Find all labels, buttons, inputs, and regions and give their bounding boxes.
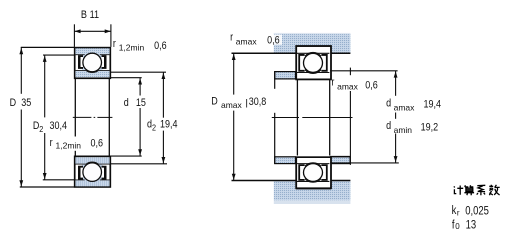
svg-text:r: r: [50, 137, 54, 149]
svg-text:30,4: 30,4: [50, 120, 68, 132]
halo for top 0,6 label: [266, 35, 282, 45]
svg-text:amax: amax: [337, 81, 359, 91]
d2 dimension line: [162, 72, 164, 118]
svg-text:19,4: 19,4: [424, 99, 442, 111]
char ji 计: [454, 186, 457, 193]
svg-text:r: r: [230, 32, 234, 44]
bore line left (right figure): [296, 80, 298, 156]
Damax dimension line: [233, 53, 235, 94]
svg-text:B: B: [81, 9, 87, 21]
svg-text:amax: amax: [236, 37, 258, 47]
bearing upper half section: [75, 48, 111, 79]
svg-text:0,6: 0,6: [365, 79, 378, 91]
chinese title 计算系数 drawn as paths: [454, 185, 500, 195]
bearing lower half section right (mirror): [296, 157, 331, 188]
white halo for d2 label: [147, 118, 181, 131]
svg-text:r: r: [331, 76, 335, 88]
D dimension line: [20, 47, 22, 94]
svg-text:30,8: 30,8: [249, 96, 267, 108]
shaft shoulder band bottom-left: [275, 157, 296, 164]
svg-text:0,6: 0,6: [91, 138, 104, 150]
D2 extension line bottom: [43, 179, 75, 181]
housing bore contact line top: [296, 45, 331, 47]
svg-text:d: d: [386, 120, 391, 132]
svg-text:2: 2: [39, 124, 43, 134]
B dimension line: [74, 30, 111, 32]
housing block top fade edge: [274, 33, 351, 34]
d dimension line: [139, 78, 141, 156]
svg-text:19,4: 19,4: [160, 119, 178, 131]
svg-text:amax: amax: [394, 102, 416, 112]
D2 dimension line: [44, 55, 46, 117]
small tick between words: [246, 99, 248, 108]
shaft surface short line bottom-right: [330, 155, 350, 157]
d-side extension line bottom: [330, 162, 399, 164]
char shu 数: [489, 185, 493, 195]
svg-text:r: r: [457, 208, 460, 217]
housing shoulder line bottom (also Damax extension): [232, 180, 296, 182]
da dimension line with arrows: [395, 71, 397, 96]
D extension line top: [21, 46, 75, 48]
char suan 算: [465, 185, 474, 187]
bore line right (right figure): [329, 80, 331, 156]
svg-text:r: r: [113, 38, 117, 50]
white halo for d label: [123, 96, 149, 109]
svg-text:1,2min: 1,2min: [119, 43, 145, 53]
housing bore contact line bottom: [296, 188, 331, 190]
shaft shoulder face line: [274, 71, 276, 89]
svg-text:0: 0: [455, 222, 460, 231]
d2 extension line bottom: [111, 163, 167, 165]
svg-text:2: 2: [152, 123, 156, 133]
damin boundary line at x350: [349, 68, 351, 76]
svg-text:11: 11: [90, 9, 100, 21]
d2 extension line top: [111, 71, 166, 73]
svg-text:amin: amin: [394, 125, 413, 135]
svg-text:d: d: [124, 97, 129, 109]
shaft shoulder band top-left: [275, 72, 296, 79]
white halo for D2 label: [32, 118, 56, 133]
housing shoulder line top (also Damax extension): [232, 52, 296, 54]
svg-text:D: D: [10, 97, 17, 109]
svg-text:D: D: [211, 96, 218, 108]
shaft shoulder band bottom-right: [330, 157, 350, 164]
d extension line bottom: [111, 155, 142, 157]
bearing lower half section (mirror): [75, 156, 111, 187]
svg-text:d: d: [386, 98, 391, 110]
centerline right figure: [272, 117, 299, 119]
bearing upper half section right: [296, 46, 331, 79]
svg-text:0,025: 0,025: [465, 204, 489, 217]
bore line left: [74, 78, 76, 136]
char xi 系: [477, 185, 485, 191]
d extension line top: [111, 77, 142, 79]
svg-text:0,6: 0,6: [154, 40, 167, 52]
B dimension extension lines: [73, 24, 75, 47]
housing block top: [274, 34, 351, 54]
svg-text:15: 15: [136, 97, 146, 109]
housing block bottom: [274, 181, 351, 201]
svg-text:13: 13: [466, 218, 477, 231]
D extension line bottom: [20, 186, 75, 188]
svg-text:0,6: 0,6: [267, 35, 280, 47]
D2 extension line top: [43, 54, 74, 56]
bore line right: [108, 78, 110, 156]
svg-text:D: D: [33, 120, 40, 132]
svg-text:19,2: 19,2: [421, 122, 439, 134]
svg-text:35: 35: [21, 97, 31, 109]
svg-text:amax: amax: [221, 100, 243, 110]
svg-text:1,2min: 1,2min: [56, 141, 82, 151]
centerline left figure: [73, 116, 92, 118]
housing block bottom fade edge: [274, 200, 351, 204]
d-side extension line top (damax): [330, 70, 397, 72]
